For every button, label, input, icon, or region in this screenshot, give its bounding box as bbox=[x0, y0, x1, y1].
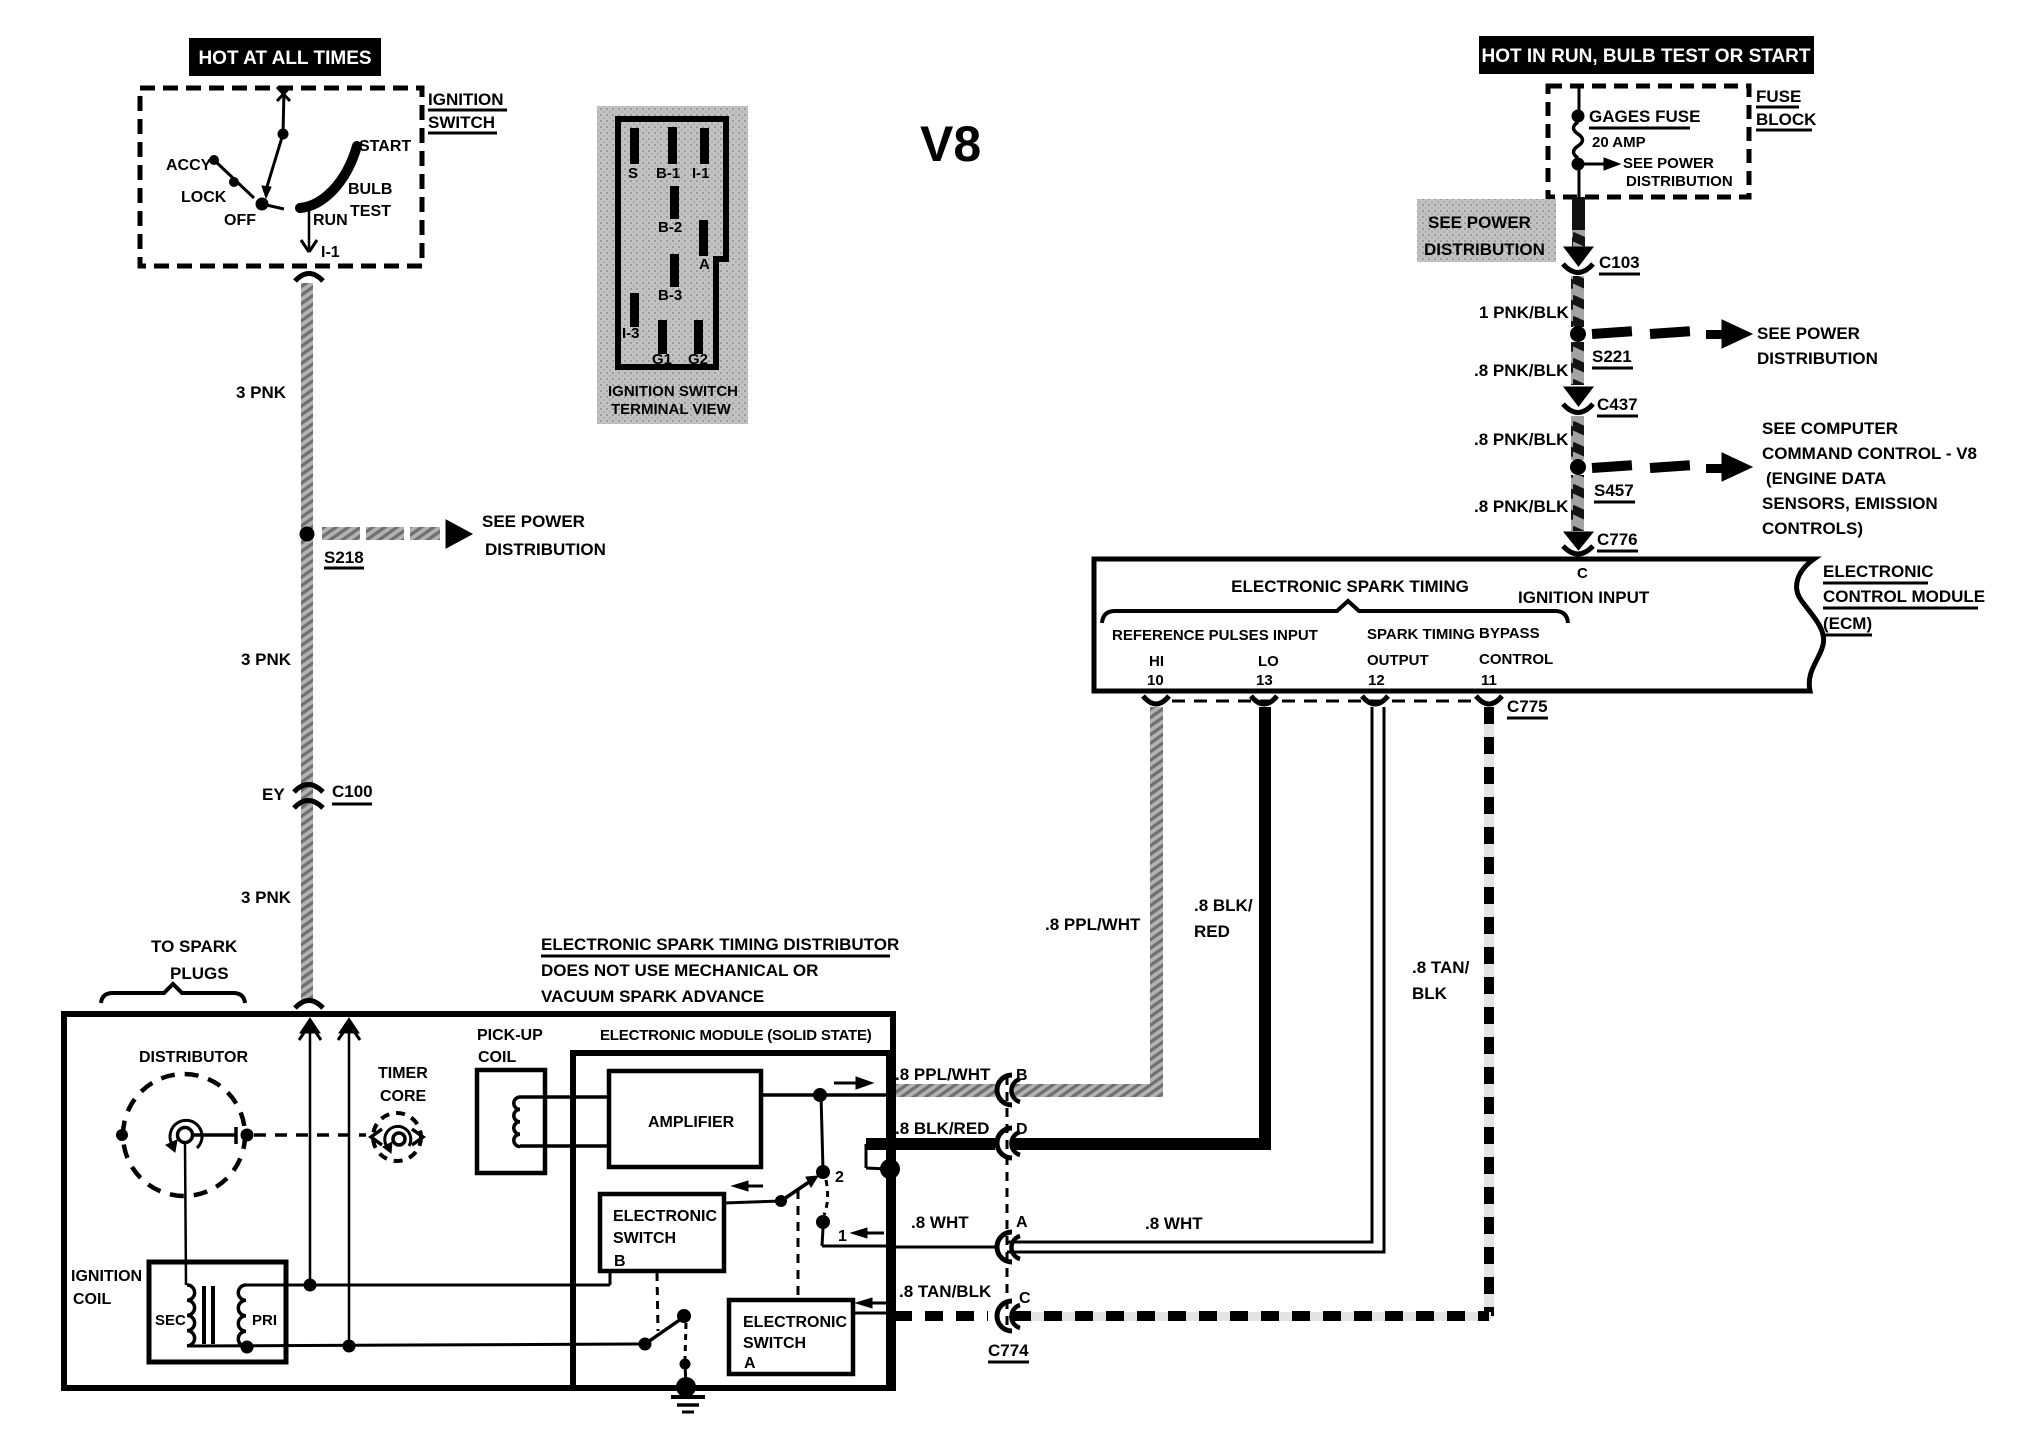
svg-text:SEC: SEC bbox=[155, 1312, 186, 1329]
svg-text:B-1: B-1 bbox=[656, 165, 680, 182]
svg-text:HOT IN RUN, BULB TEST OR STAR: HOT IN RUN, BULB TEST OR START bbox=[1482, 46, 1811, 67]
svg-text:PLUGS: PLUGS bbox=[170, 964, 229, 983]
connector C100 bbox=[262, 782, 373, 808]
ignition coil label bbox=[71, 1268, 142, 1308]
dashed control line switch B to coil lever bbox=[657, 1273, 658, 1331]
BLK/RED hook inside module bbox=[866, 1144, 900, 1179]
svg-text:ELECTRONIC: ELECTRONIC bbox=[613, 1208, 717, 1225]
svg-text:SEE POWER: SEE POWER bbox=[482, 512, 585, 531]
svg-text:COIL: COIL bbox=[478, 1049, 516, 1066]
svg-text:A: A bbox=[744, 1355, 756, 1372]
node on distributor circle right bbox=[241, 1129, 254, 1142]
svg-text:ACCY: ACCY bbox=[166, 157, 212, 174]
svg-text:G1: G1 bbox=[652, 351, 672, 368]
svg-text:C100: C100 bbox=[332, 782, 373, 801]
wires pick-up coil to amplifier bbox=[520, 1097, 609, 1146]
wire .8 PNK/BLK second bbox=[1474, 416, 1584, 460]
svg-text:CONTROLS): CONTROLS) bbox=[1762, 519, 1863, 538]
svg-text:A: A bbox=[699, 256, 710, 273]
ECM name label bbox=[1823, 562, 1985, 635]
timer core symbol bbox=[371, 1113, 423, 1161]
amplifier output wire bbox=[761, 1077, 892, 1102]
svg-text:ELECTRONIC SPARK TIMING DISTRI: ELECTRONIC SPARK TIMING DISTRIBUTOR bbox=[541, 935, 899, 954]
pin G1 bbox=[652, 320, 672, 368]
see computer command control note bbox=[1762, 419, 1977, 538]
pick-up coil label bbox=[477, 1027, 543, 1066]
pin S bbox=[628, 128, 639, 182]
svg-text:1: 1 bbox=[838, 1228, 847, 1245]
svg-text:I-1: I-1 bbox=[692, 165, 710, 182]
svg-text:(ENGINE DATA: (ENGINE DATA bbox=[1766, 469, 1886, 488]
svg-text:.8 PNK/BLK: .8 PNK/BLK bbox=[1474, 497, 1569, 516]
electronic switch A box bbox=[729, 1300, 853, 1374]
ECM outline bbox=[1094, 559, 1824, 691]
electronic module box bbox=[573, 1053, 889, 1388]
wire 3 PNK vertical bbox=[236, 283, 313, 1000]
switch wiper lever bbox=[262, 129, 289, 199]
svg-text:ELECTRONIC SPARK TIMING: ELECTRONIC SPARK TIMING bbox=[1231, 577, 1469, 596]
wire rotor to coil secondary bbox=[185, 1144, 186, 1285]
wire amplifier junction down to contact 2 bbox=[821, 1095, 823, 1170]
svg-text:AMPLIFIER: AMPLIFIER bbox=[648, 1114, 735, 1131]
svg-text:IGNITION INPUT: IGNITION INPUT bbox=[1518, 588, 1650, 607]
label box HOT IN RUN, BULB TEST OR START bbox=[1479, 36, 1814, 74]
wire .8 PNK/BLK third bbox=[1474, 475, 1584, 531]
svg-text:OFF: OFF bbox=[224, 212, 256, 229]
svg-text:3 PNK: 3 PNK bbox=[236, 383, 287, 402]
rotor bbox=[166, 1120, 236, 1152]
splice S218 bbox=[300, 512, 606, 568]
svg-text:ELECTRONIC: ELECTRONIC bbox=[1823, 562, 1934, 581]
connector C103 bbox=[1563, 247, 1640, 274]
svg-text:A: A bbox=[1016, 1214, 1028, 1231]
svg-text:DISTRIBUTION: DISTRIBUTION bbox=[1757, 349, 1878, 368]
svg-text:START: START bbox=[359, 138, 411, 155]
primary winding bbox=[238, 1285, 277, 1347]
svg-text:GAGES FUSE: GAGES FUSE bbox=[1589, 107, 1700, 126]
svg-text:SWITCH: SWITCH bbox=[428, 113, 495, 132]
wire contact1 to WHT output bbox=[822, 1228, 892, 1246]
coil core bbox=[204, 1286, 213, 1344]
svg-text:LO: LO bbox=[1258, 653, 1279, 670]
svg-text:IGNITION: IGNITION bbox=[428, 90, 504, 109]
svg-text:ELECTRONIC MODULE (SOLID STATE: ELECTRONIC MODULE (SOLID STATE) bbox=[600, 1027, 872, 1044]
svg-text:.8 WHT: .8 WHT bbox=[911, 1213, 969, 1232]
connector C437 bbox=[1563, 387, 1638, 416]
to spark plugs label bbox=[101, 937, 245, 1003]
svg-text:.8 PPL/WHT: .8 PPL/WHT bbox=[1045, 915, 1141, 934]
switch lever (to electronic switch B) bbox=[724, 1176, 818, 1207]
svg-text:B-3: B-3 bbox=[658, 287, 682, 304]
connector at switch output bbox=[295, 274, 323, 282]
svg-text:SEE POWER: SEE POWER bbox=[1757, 324, 1860, 343]
svg-text:.8 PPL/WHT: .8 PPL/WHT bbox=[895, 1065, 991, 1084]
svg-text:IGNITION: IGNITION bbox=[71, 1268, 142, 1285]
amplifier bbox=[609, 1071, 761, 1167]
wire to I-1 terminal bbox=[301, 206, 340, 261]
svg-text:OUTPUT: OUTPUT bbox=[1367, 652, 1429, 669]
splice S457 bbox=[1570, 453, 1752, 502]
ground bbox=[671, 1377, 705, 1412]
distributor caption bbox=[541, 935, 899, 1006]
wire .8 BLK/RED (pin13 to D) bbox=[866, 707, 1271, 1150]
svg-text:HI: HI bbox=[1149, 653, 1164, 670]
svg-text:13: 13 bbox=[1256, 672, 1273, 689]
electronic switch B box bbox=[600, 1194, 724, 1271]
svg-text:.8 TAN/BLK: .8 TAN/BLK bbox=[899, 1282, 992, 1301]
gages fuse bbox=[1572, 88, 1733, 197]
dashed control line to switch A bbox=[797, 1190, 800, 1300]
distributor dashed circle bbox=[123, 1074, 245, 1196]
svg-text:10: 10 bbox=[1147, 672, 1164, 689]
svg-text:12: 12 bbox=[1368, 672, 1385, 689]
svg-text:3 PNK: 3 PNK bbox=[241, 650, 292, 669]
svg-text:.8 PNK/BLK: .8 PNK/BLK bbox=[1474, 361, 1569, 380]
svg-text:ELECTRONIC: ELECTRONIC bbox=[743, 1314, 847, 1331]
svg-text:SWITCH: SWITCH bbox=[743, 1335, 806, 1352]
svg-text:C775: C775 bbox=[1507, 697, 1548, 716]
svg-text:C103: C103 bbox=[1599, 253, 1640, 272]
timer core label bbox=[378, 1065, 428, 1105]
contact 1 bbox=[816, 1215, 847, 1245]
svg-text:VACUUM SPARK ADVANCE: VACUUM SPARK ADVANCE bbox=[541, 987, 764, 1006]
svg-text:DISTRIBUTOR: DISTRIBUTOR bbox=[139, 1049, 248, 1066]
contact 1 motion arrow bbox=[851, 1228, 884, 1238]
pick-up coil bbox=[477, 1070, 545, 1173]
svg-text:BULB: BULB bbox=[348, 181, 392, 198]
svg-text:PRI: PRI bbox=[252, 1312, 277, 1329]
wire .8 PPL/WHT (pin10 to B) bbox=[894, 707, 1163, 1097]
svg-text:COMMAND CONTROL - V8: COMMAND CONTROL - V8 bbox=[1762, 444, 1977, 463]
svg-text:HOT AT ALL TIMES: HOT AT ALL TIMES bbox=[198, 48, 371, 69]
svg-text:G2: G2 bbox=[688, 351, 708, 368]
svg-text:D: D bbox=[1016, 1121, 1028, 1138]
secondary winding bbox=[155, 1285, 195, 1346]
svg-text:PICK-UP: PICK-UP bbox=[477, 1027, 543, 1044]
contact ACCY bbox=[166, 155, 254, 198]
run-start thick arc bbox=[300, 138, 411, 229]
svg-text:.8 WHT: .8 WHT bbox=[1145, 1214, 1203, 1233]
svg-text:S457: S457 bbox=[1594, 481, 1634, 500]
connector C774 column bbox=[988, 1075, 1029, 1362]
switch A output to module edge bbox=[853, 1312, 890, 1315]
svg-text:CONTROL: CONTROL bbox=[1479, 651, 1553, 668]
svg-text:20 AMP: 20 AMP bbox=[1592, 134, 1646, 151]
node on distributor circle left bbox=[116, 1129, 128, 1141]
contact OFF bbox=[224, 198, 284, 230]
wire .8 TAN/BLK (pin11 to C) bbox=[894, 707, 1494, 1321]
wire primary bottom to switch lever bbox=[187, 1340, 645, 1354]
svg-text:S218: S218 bbox=[324, 548, 364, 567]
pin G2 bbox=[688, 320, 708, 368]
svg-text:BLK: BLK bbox=[1412, 984, 1448, 1003]
svg-text:S221: S221 bbox=[1592, 347, 1632, 366]
lever motion arrow bbox=[732, 1181, 763, 1191]
pin B-1 bbox=[656, 127, 680, 182]
pin captions bbox=[1112, 625, 1553, 689]
connector C775 row bbox=[1143, 696, 1548, 718]
svg-text:CONTROL MODULE: CONTROL MODULE bbox=[1823, 587, 1985, 606]
svg-text:(ECM): (ECM) bbox=[1823, 614, 1872, 633]
svg-text:DISTRIBUTION: DISTRIBUTION bbox=[485, 540, 606, 559]
svg-text:SEE POWER: SEE POWER bbox=[1428, 213, 1531, 232]
svg-text:REFERENCE PULSES INPUT: REFERENCE PULSES INPUT bbox=[1112, 627, 1318, 644]
ignition coil box bbox=[149, 1262, 286, 1362]
contact 2 bbox=[816, 1165, 844, 1186]
svg-text:COIL: COIL bbox=[73, 1291, 111, 1308]
contact LOCK bbox=[181, 177, 239, 206]
pin B-2 bbox=[658, 186, 682, 236]
pin B-3 bbox=[658, 254, 682, 304]
svg-text:CORE: CORE bbox=[380, 1088, 427, 1105]
pin A bbox=[699, 220, 710, 273]
svg-text:SENSORS, EMISSION: SENSORS, EMISSION bbox=[1762, 494, 1938, 513]
svg-text:SWITCH: SWITCH bbox=[613, 1230, 676, 1247]
svg-text:RED: RED bbox=[1194, 922, 1230, 941]
fuse block dashed enclosure bbox=[1548, 86, 1817, 197]
svg-text:DISTRIBUTION: DISTRIBUTION bbox=[1626, 173, 1733, 190]
svg-text:SPARK TIMING: SPARK TIMING bbox=[1367, 626, 1475, 643]
svg-text:SEE POWER: SEE POWER bbox=[1623, 155, 1714, 172]
distributor outer box bbox=[64, 1014, 893, 1388]
connector C776 bbox=[1563, 530, 1638, 554]
coil primary switch lever bbox=[639, 1309, 692, 1351]
svg-text:C437: C437 bbox=[1597, 395, 1638, 414]
svg-text:LOCK: LOCK bbox=[181, 189, 227, 206]
svg-text:TIMER: TIMER bbox=[378, 1065, 428, 1082]
svg-text:C: C bbox=[1019, 1290, 1031, 1307]
terminal view halftone block bbox=[597, 106, 748, 424]
svg-text:11: 11 bbox=[1481, 672, 1497, 689]
svg-text:EY: EY bbox=[262, 785, 285, 804]
svg-text:.8 BLK/: .8 BLK/ bbox=[1194, 896, 1253, 915]
brace for EST pins bbox=[1102, 601, 1568, 623]
coil output arrows to cap bbox=[299, 1018, 321, 1286]
svg-text:BLOCK: BLOCK bbox=[1756, 110, 1817, 129]
terminal view caption bbox=[608, 383, 738, 418]
svg-text:S: S bbox=[628, 165, 638, 182]
svg-text:FUSE: FUSE bbox=[1756, 87, 1801, 106]
ignition switch dashed enclosure bbox=[140, 88, 507, 266]
svg-text:B: B bbox=[614, 1253, 626, 1270]
svg-text:IGNITION SWITCH: IGNITION SWITCH bbox=[608, 383, 738, 400]
svg-text:V8: V8 bbox=[920, 116, 981, 172]
switch A motion arrow bbox=[856, 1298, 888, 1308]
see power distribution reversed block bbox=[1417, 199, 1556, 262]
svg-text:DOES NOT USE MECHANICAL OR: DOES NOT USE MECHANICAL OR bbox=[541, 961, 818, 980]
svg-text:.8 TAN/: .8 TAN/ bbox=[1412, 958, 1470, 977]
svg-text:BYPASS: BYPASS bbox=[1479, 625, 1540, 642]
svg-text:RUN: RUN bbox=[313, 212, 348, 229]
svg-text:C774: C774 bbox=[988, 1341, 1029, 1360]
svg-text:TO SPARK: TO SPARK bbox=[151, 937, 238, 956]
wire from hot feed into switch bbox=[277, 87, 290, 134]
dashed contact 2 to contact 1 bbox=[824, 1180, 828, 1215]
svg-text:TERMINAL VIEW: TERMINAL VIEW bbox=[611, 401, 732, 418]
wire 1 PNK/BLK bbox=[1479, 276, 1584, 327]
svg-text:DISTRIBUTION: DISTRIBUTION bbox=[1424, 240, 1545, 259]
svg-text:3 PNK: 3 PNK bbox=[241, 888, 292, 907]
wire primary top to electronic switch B bbox=[246, 1270, 610, 1292]
pin I-1 bbox=[692, 128, 710, 182]
svg-text:C776: C776 bbox=[1597, 530, 1638, 549]
coil secondary output wire (to spark plugs) bbox=[295, 930, 323, 1008]
svg-text:B-2: B-2 bbox=[658, 219, 682, 236]
svg-text:1 PNK/BLK: 1 PNK/BLK bbox=[1479, 303, 1569, 322]
dashed mechanical link to timer core bbox=[254, 1133, 366, 1137]
wire .8 PNK/BLK bbox=[1474, 342, 1584, 385]
dashed lever to ground bbox=[680, 1323, 691, 1385]
svg-text:.8 PNK/BLK: .8 PNK/BLK bbox=[1474, 430, 1569, 449]
svg-text:.8 BLK/RED: .8 BLK/RED bbox=[895, 1119, 989, 1138]
svg-text:I-1: I-1 bbox=[321, 244, 340, 261]
svg-text:2: 2 bbox=[835, 1169, 844, 1186]
svg-text:TEST: TEST bbox=[350, 203, 391, 220]
pin I-3 bbox=[622, 293, 640, 342]
svg-text:C: C bbox=[1577, 565, 1588, 582]
wire fuse to C103 bbox=[1572, 197, 1585, 248]
wire .8 WHT (pin12 to A) bbox=[894, 707, 1384, 1252]
svg-text:SEE COMPUTER: SEE COMPUTER bbox=[1762, 419, 1898, 438]
svg-text:I-3: I-3 bbox=[622, 325, 640, 342]
label box HOT AT ALL TIMES bbox=[189, 38, 381, 76]
splice S221 bbox=[1570, 320, 1878, 368]
